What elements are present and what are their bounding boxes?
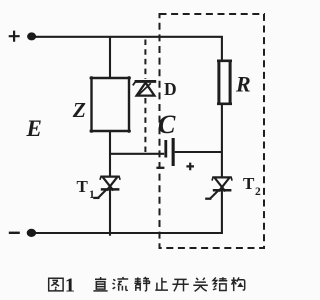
caption char 1 [65, 274, 75, 296]
svg-text:R: R [235, 72, 251, 97]
caption char 构 [231, 277, 244, 291]
caption char 直 [93, 277, 107, 291]
wire capacitor right plate to right branch [175, 151, 222, 153]
caption char 止 [155, 278, 168, 291]
wire T2 cathode to bottom bus corner [221, 191, 223, 234]
svg-text:1: 1 [89, 189, 95, 201]
diode D [133, 81, 156, 95]
thyristor T1 [93, 177, 120, 198]
label C [158, 110, 176, 139]
wire top bus corner down to R [221, 36, 223, 61]
label - capacitor polarity [156, 167, 164, 169]
caption 图1 直流静止开关结构 [49, 274, 245, 296]
caption char 结 [213, 277, 227, 290]
label R [235, 72, 251, 97]
thyristor T2 [205, 177, 232, 198]
label + capacitor polarity [186, 163, 194, 171]
svg-text:E: E [26, 116, 42, 141]
caption char 流 [113, 277, 129, 291]
wire diode D dashed branch upper [144, 40, 146, 80]
resistor R box [217, 60, 232, 105]
label Z [72, 98, 86, 122]
capacitor C right plate [172, 138, 175, 166]
wire top bus (+) [35, 36, 223, 38]
svg-text:1: 1 [65, 274, 75, 296]
svg-text:C: C [158, 110, 176, 139]
svg-text:Z: Z [72, 98, 86, 122]
terminal - dot [27, 229, 36, 237]
caption char 开 [172, 279, 188, 291]
svg-text:D: D [164, 79, 177, 99]
label T1 [77, 177, 96, 201]
caption char 静 [134, 277, 150, 291]
label D [164, 79, 177, 99]
wire bottom bus (-) [35, 232, 223, 234]
impedance Z box [90, 76, 131, 132]
wire mid node to capacitor left plate [110, 153, 164, 155]
terminal + dot [27, 32, 36, 40]
label + (positive supply) [9, 31, 20, 42]
label E [26, 116, 42, 141]
caption char 图 [49, 278, 63, 291]
label - (negative supply) [9, 232, 20, 234]
svg-text:T: T [243, 174, 255, 193]
capacitor C left plate [164, 140, 167, 158]
svg-text:2: 2 [255, 186, 261, 198]
caption char 关 [193, 278, 208, 292]
wire R bottom to T2 anode [221, 104, 223, 178]
svg-text:T: T [77, 177, 89, 196]
wire Z bottom to T1 anode [109, 131, 111, 177]
wire diode D dashed branch lower [144, 98, 146, 153]
dashed enclosure box [160, 14, 265, 248]
wire T1 cathode to bottom bus [109, 190, 111, 236]
wire top bus to Z [109, 36, 111, 78]
label T2 [243, 174, 261, 198]
